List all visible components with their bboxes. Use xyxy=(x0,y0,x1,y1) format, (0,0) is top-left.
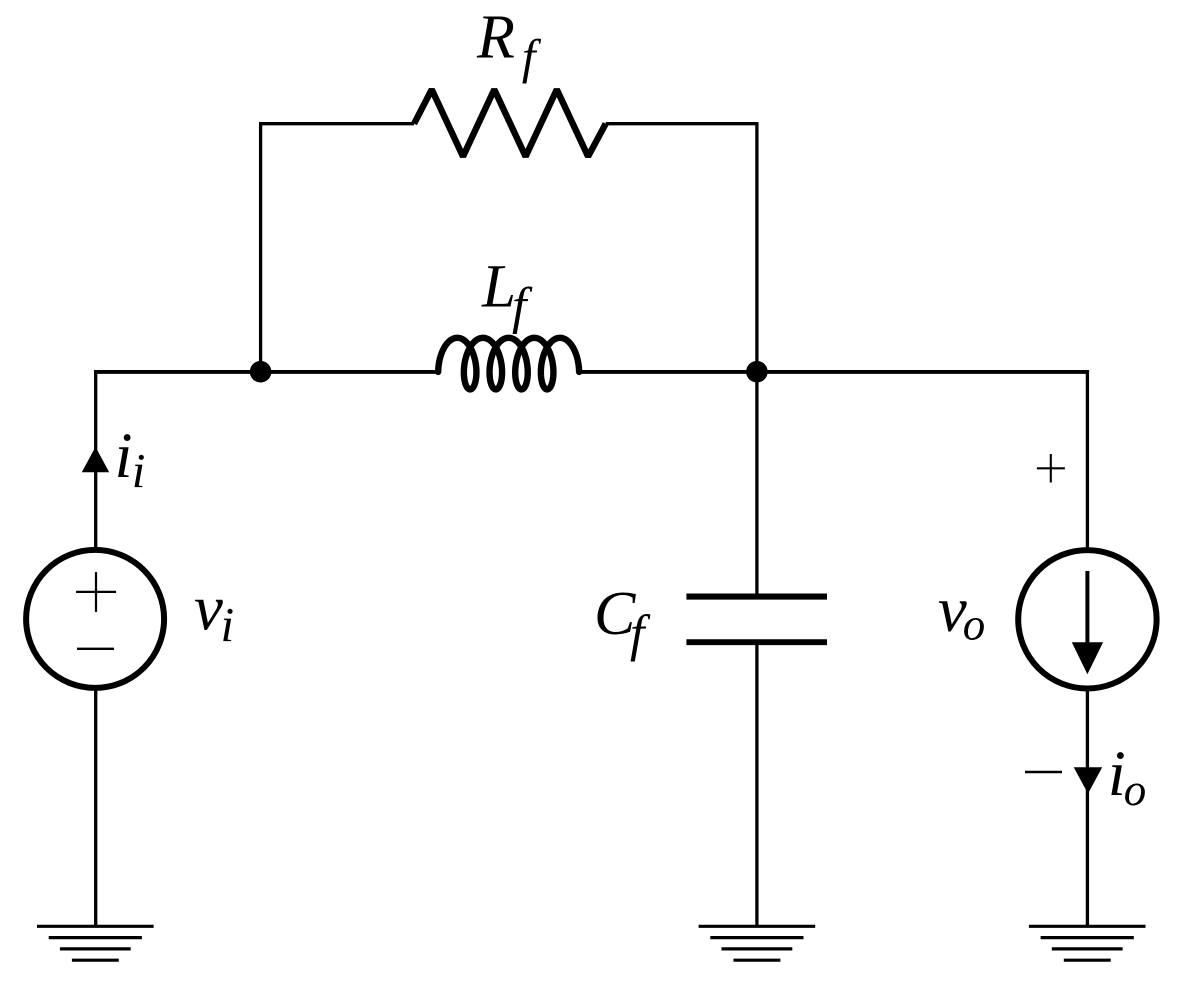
wire: feedback loop left vertical xyxy=(259,124,262,372)
svg-text:io: io xyxy=(1108,738,1147,815)
node A (left junction dot) xyxy=(250,361,272,383)
wire: left branch vertical (bus to source vi) xyxy=(94,372,97,551)
node B (right junction dot) xyxy=(746,361,768,383)
resistor Rf xyxy=(414,90,606,157)
ground (right) xyxy=(1029,926,1146,960)
wire: feedback top-right horizontal xyxy=(606,122,759,125)
svg-text:ii: ii xyxy=(115,420,146,498)
capacitor Cf xyxy=(686,597,827,643)
wire: feedback top-left horizontal xyxy=(259,122,414,125)
wire: feedback loop right vertical xyxy=(755,124,758,372)
wire: capacitor branch (node B down to top plate) xyxy=(755,372,758,597)
voltage source vi (circle) xyxy=(26,550,164,688)
ground (middle) xyxy=(699,926,816,960)
plus sign inside vi xyxy=(76,572,116,612)
inductor Lf xyxy=(438,338,579,390)
svg-text:Rf: Rf xyxy=(476,4,542,84)
wire: bottom plate to ground xyxy=(755,642,758,926)
arrow ii (current arrow, up) xyxy=(82,447,109,472)
svg-text:vi: vi xyxy=(194,572,234,652)
svg-text:Cf: Cf xyxy=(594,580,651,663)
plus sign (vo polarity, top) xyxy=(1037,454,1065,483)
svg-text:Lf: Lf xyxy=(481,254,533,336)
arrow inside vo (down) xyxy=(1085,571,1089,648)
current source vo (circle) xyxy=(1018,550,1156,688)
ground (left) xyxy=(37,926,154,960)
wire: right branch vertical (right corner to source) xyxy=(1086,372,1089,551)
wire: vi to ground xyxy=(94,687,97,926)
minus sign (vo polarity, bottom) xyxy=(1025,771,1062,773)
wire: vo to ground xyxy=(1086,688,1089,927)
minus sign inside vi xyxy=(77,648,114,650)
svg-text:vo: vo xyxy=(938,574,985,649)
wire: main bus left segment (node A to inductor) xyxy=(94,370,439,374)
arrow io (current arrow, down) xyxy=(1074,767,1103,793)
wire: main bus right segment (inductor to node B and right corner) xyxy=(578,370,1089,374)
